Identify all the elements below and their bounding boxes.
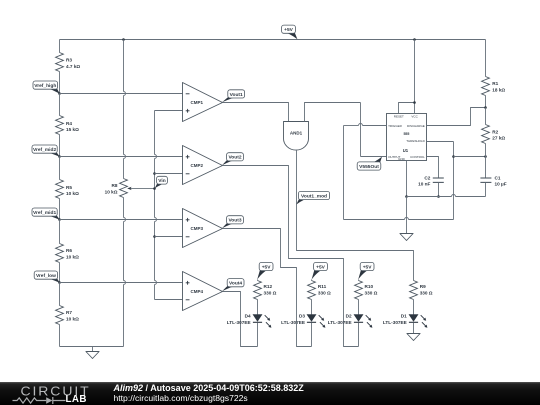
resistor R4 bbox=[56, 116, 64, 135]
wire R7 top lead bbox=[59, 283, 61, 306]
svg-text:LTL-307EE: LTL-307EE bbox=[383, 320, 407, 325]
resistor R7 bbox=[56, 306, 64, 325]
svg-text:330 Ω: 330 Ω bbox=[420, 291, 433, 296]
wire R3 top lead bbox=[59, 40, 61, 53]
wire Vin to CMP4 minus bbox=[155, 299, 183, 301]
wire Vref_mid2 to CMP2 plus bbox=[60, 156, 183, 158]
wire D1 cathode to ground bbox=[413, 323, 415, 334]
resistor R5 bbox=[56, 180, 64, 199]
svg-text:27 kΩ: 27 kΩ bbox=[492, 136, 505, 141]
gate AND1 bbox=[284, 122, 309, 151]
wire DISCHARGE to R1/R2 junction bbox=[427, 108, 486, 126]
svg-text:15 kΩ: 15 kΩ bbox=[66, 127, 79, 132]
wire Vout1_mod: AND1 output to R9 bbox=[297, 150, 414, 281]
wire Vin to CMP1 plus bbox=[155, 110, 183, 112]
wire Vref_low to CMP4 plus bbox=[60, 282, 183, 284]
svg-text:R9: R9 bbox=[420, 284, 426, 289]
node +5V (top) bbox=[283, 32, 297, 39]
svg-text:Vref_mid2: Vref_mid2 bbox=[33, 147, 56, 153]
svg-text:Vout3: Vout3 bbox=[228, 218, 241, 224]
node Vref_low junction bbox=[58, 281, 61, 284]
node V555Out bbox=[370, 157, 382, 164]
wire +5V to R11 bbox=[311, 280, 313, 281]
svg-text:+5V: +5V bbox=[284, 27, 294, 33]
wire R1 bottom bbox=[485, 96, 487, 108]
svg-text:R10: R10 bbox=[365, 284, 374, 289]
resistor R6 bbox=[56, 244, 64, 263]
svg-text:THRESHOLD: THRESHOLD bbox=[406, 139, 425, 143]
wire AND1 input 2 to 555 output riser bbox=[305, 103, 361, 122]
wire VCC riser to +5V bbox=[414, 40, 416, 114]
svg-text:Vout2: Vout2 bbox=[228, 155, 241, 161]
svg-text:10 kΩ: 10 kΩ bbox=[66, 191, 79, 196]
wire R5 bottom lead bbox=[59, 199, 61, 220]
LED D3 bbox=[307, 315, 316, 322]
svg-text:CMP4: CMP4 bbox=[191, 289, 204, 294]
wire rail B lower (hops Vref_mid1, Vref_low) bbox=[123, 198, 125, 218]
node +5V (R12 branch) bbox=[257, 269, 270, 279]
svg-text:R4: R4 bbox=[66, 121, 72, 126]
svg-text:D4: D4 bbox=[245, 314, 251, 319]
resistor R11 bbox=[308, 281, 316, 300]
junction Vin rail / CMP3 minus bbox=[153, 235, 156, 238]
svg-text:RESET: RESET bbox=[394, 114, 404, 118]
wire Vin to CMP2 minus bbox=[155, 173, 183, 175]
node Vout1_mod bbox=[296, 198, 309, 204]
junction Vin rail / CMP2 minus bbox=[153, 172, 156, 175]
junction threshold vertical / R2-C1 wire bbox=[452, 155, 455, 158]
op-amp CMP1 bbox=[183, 83, 223, 122]
wire D4 cathode down bbox=[257, 323, 259, 347]
wire C1 top lead bbox=[485, 157, 487, 178]
capacitor C1 bbox=[480, 177, 491, 179]
wire R11 to D3 bbox=[311, 300, 313, 315]
wire R6 bottom lead bbox=[59, 263, 61, 283]
svg-text:+5V: +5V bbox=[316, 264, 326, 270]
resistor R12 bbox=[254, 281, 262, 300]
wire threshold vertical bbox=[453, 142, 455, 220]
svg-text:18 kΩ: 18 kΩ bbox=[492, 88, 505, 93]
ground (below 555) bbox=[400, 234, 413, 241]
wire ground stem below 555 bbox=[406, 197, 408, 234]
wire C1 bottom lead bbox=[485, 183, 487, 197]
svg-text:CONTROL: CONTROL bbox=[410, 155, 425, 159]
svg-text:4.7 kΩ: 4.7 kΩ bbox=[66, 64, 80, 69]
svg-text:C1: C1 bbox=[495, 175, 501, 180]
svg-text:10 nF: 10 nF bbox=[418, 182, 430, 187]
svg-text:CMP3: CMP3 bbox=[191, 226, 204, 231]
wire Vref_high to CMP1 minus bbox=[60, 93, 183, 95]
resistor R9 bbox=[410, 281, 418, 300]
junction top rail / 555 VCC riser bbox=[413, 38, 416, 41]
svg-text:Vref_low: Vref_low bbox=[36, 273, 56, 279]
node +5V (R11 branch) bbox=[312, 269, 325, 279]
wire +5V top rail bbox=[60, 39, 486, 41]
node Vout1 bbox=[222, 97, 239, 103]
svg-text:Vin: Vin bbox=[158, 178, 165, 184]
node Vref_mid2 junction bbox=[58, 155, 61, 158]
wire 555 output riser bbox=[360, 103, 362, 157]
svg-text:AND1: AND1 bbox=[290, 131, 303, 136]
svg-text:R3: R3 bbox=[66, 58, 72, 63]
svg-text:+5V: +5V bbox=[262, 264, 272, 270]
node Vout3 bbox=[222, 222, 238, 228]
wire R4 top lead bbox=[59, 94, 61, 116]
svg-text:330 Ω: 330 Ω bbox=[365, 291, 378, 296]
wire C2 bottom lead bbox=[438, 183, 440, 197]
potentiometer R8 wiper arrow bbox=[130, 187, 155, 189]
wire R5 top lead bbox=[59, 157, 61, 180]
svg-text:R12: R12 bbox=[264, 284, 273, 289]
svg-text:R5: R5 bbox=[66, 185, 72, 190]
wire Vin to CMP3 minus bbox=[155, 236, 183, 238]
LED D4 bbox=[253, 315, 262, 322]
svg-text:Vout4: Vout4 bbox=[229, 281, 242, 287]
svg-text:R7: R7 bbox=[66, 310, 72, 315]
junction C2 / ground wire bbox=[437, 195, 440, 198]
wire Vref_mid1 to CMP3 plus bbox=[60, 219, 183, 221]
svg-text:CMP2: CMP2 bbox=[191, 163, 204, 168]
node Vref_low bbox=[46, 278, 60, 283]
wire Vout2: CMP2 out to D2 cathode bbox=[223, 166, 359, 347]
wire D3 cathode down bbox=[311, 323, 313, 347]
CircuitLab logo bbox=[21, 386, 91, 395]
op-amp CMP4 bbox=[183, 272, 223, 311]
svg-text:U1: U1 bbox=[403, 148, 409, 153]
wire R6 top lead bbox=[59, 220, 61, 244]
LED D2 bbox=[354, 315, 363, 322]
svg-text:Vout1_mod: Vout1_mod bbox=[301, 193, 327, 199]
junction R2 bottom / C1 top bbox=[484, 155, 487, 158]
svg-text:+5V: +5V bbox=[363, 264, 373, 270]
LED D1 bbox=[409, 315, 418, 322]
junction top rail / rail B bbox=[122, 38, 125, 41]
svg-text:C2: C2 bbox=[424, 175, 430, 180]
svg-text:D3: D3 bbox=[299, 314, 305, 319]
junction Vin rail / R8 wiper bbox=[153, 187, 156, 190]
svg-text:LTL-307EE: LTL-307EE bbox=[328, 320, 352, 325]
svg-text:330 Ω: 330 Ω bbox=[264, 291, 277, 296]
svg-text:LTL-307EE: LTL-307EE bbox=[227, 320, 251, 325]
svg-text:Vref_high: Vref_high bbox=[34, 83, 56, 89]
svg-text:10 kΩ: 10 kΩ bbox=[66, 255, 79, 260]
wire RESET to VCC riser bbox=[399, 103, 415, 114]
node Vin bbox=[155, 183, 168, 189]
node Vref_mid2 bbox=[45, 152, 60, 157]
op-amp CMP3 bbox=[183, 209, 223, 248]
svg-text:R11: R11 bbox=[318, 284, 327, 289]
svg-text:CMP1: CMP1 bbox=[191, 100, 204, 105]
svg-text:DISCHARGE: DISCHARGE bbox=[407, 124, 425, 128]
node Vout2 bbox=[222, 159, 238, 165]
resistor R3 bbox=[56, 53, 64, 72]
wire ground stem (ladder) bbox=[92, 347, 94, 352]
wire R2 top bbox=[485, 108, 487, 125]
op-amp CMP2 bbox=[183, 146, 223, 185]
resistor R2 bbox=[482, 125, 490, 144]
svg-text:D1: D1 bbox=[401, 314, 407, 319]
wire R3 bottom lead bbox=[59, 72, 61, 94]
wire threshold junction to R2/C1 bbox=[454, 156, 486, 158]
wire TRIGGER left loop (hop output riser) bbox=[344, 125, 359, 127]
node Vout4 bbox=[222, 285, 238, 291]
wire D2 cathode down bbox=[358, 323, 360, 347]
potentiometer R8 bbox=[120, 179, 128, 198]
ground (ladder) bbox=[86, 352, 99, 359]
node Vref_mid1 junction bbox=[58, 218, 61, 221]
svg-text:R6: R6 bbox=[66, 248, 72, 253]
node +5V (R10 branch) bbox=[358, 269, 371, 279]
svg-text:D2: D2 bbox=[346, 314, 352, 319]
wire +5V to R12 bbox=[257, 280, 259, 281]
ground (below D1) bbox=[407, 334, 420, 341]
wire Vout3: CMP3 out to D3 cathode bbox=[223, 229, 312, 347]
capacitor C2 bbox=[433, 177, 444, 179]
wire ladder bottom bbox=[60, 346, 124, 348]
wire R7 bottom lead bbox=[59, 325, 61, 347]
wire CONTROL to C2 bbox=[427, 157, 439, 178]
wire rail B upper (hops Vref_high, Vref_mid2) bbox=[123, 40, 125, 92]
svg-text:10 kΩ: 10 kΩ bbox=[105, 189, 118, 194]
svg-text:555: 555 bbox=[403, 132, 409, 136]
node Vref_mid1 bbox=[45, 215, 60, 220]
svg-text:R1: R1 bbox=[492, 81, 498, 86]
resistor R1 bbox=[482, 77, 490, 96]
wire 555 OUTPUT pin bbox=[361, 156, 387, 158]
svg-text:VCC: VCC bbox=[411, 114, 418, 118]
node Vref_high bbox=[46, 88, 60, 94]
svg-text:V555Out: V555Out bbox=[359, 164, 379, 170]
wire R4 bottom lead bbox=[59, 135, 61, 157]
svg-text:GND: GND bbox=[398, 157, 406, 161]
wire Vout4: CMP4 out to D4 cathode bbox=[223, 292, 258, 347]
junction RESET/VCC riser bbox=[413, 101, 416, 104]
svg-text:330 Ω: 330 Ω bbox=[318, 291, 331, 296]
junction R1/R2/DISCHARGE bbox=[484, 106, 487, 109]
svg-text:10 µF: 10 µF bbox=[495, 182, 507, 187]
svg-text:R8: R8 bbox=[112, 183, 118, 188]
IC U1 555 timer box bbox=[387, 114, 427, 161]
wire R12 to D4 bbox=[257, 300, 259, 315]
wire THRESHOLD pin bbox=[427, 141, 454, 143]
svg-text:Vout1: Vout1 bbox=[230, 92, 243, 98]
wire GND pin riser bbox=[406, 161, 408, 197]
svg-text:R2: R2 bbox=[492, 129, 498, 134]
wire Vout1: CMP1 out to AND1 input 1 bbox=[223, 103, 289, 122]
svg-text:LTL-307EE: LTL-307EE bbox=[281, 320, 305, 325]
svg-text:10 kΩ: 10 kΩ bbox=[66, 317, 79, 322]
wire ground rail below 555 (hop threshold vert) bbox=[407, 196, 452, 198]
wire Vin rail vertical bbox=[154, 111, 156, 155]
wire trigger-threshold loop bottom (hop gnd stem) bbox=[344, 219, 405, 221]
svg-text:TRIGGER: TRIGGER bbox=[388, 124, 403, 128]
wire +5V to R1 bbox=[485, 40, 487, 77]
wire +5V to R10 bbox=[358, 280, 360, 281]
svg-text:Vref_mid1: Vref_mid1 bbox=[33, 210, 56, 216]
wire R9 to D1 bbox=[413, 300, 415, 315]
node Vref_high junction bbox=[58, 92, 61, 95]
junction GND pin / ground wire bbox=[405, 195, 408, 198]
wire R2 bottom bbox=[485, 144, 487, 157]
wire R10 to D2 bbox=[358, 300, 360, 315]
resistor R10 bbox=[355, 281, 363, 300]
